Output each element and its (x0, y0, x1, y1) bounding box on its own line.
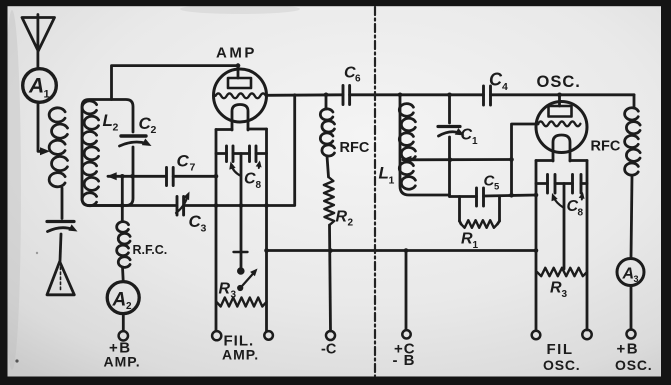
wire C7 to tube base left leg (173, 175, 215, 178)
grid wire to tank (512, 124, 539, 195)
svg-text:3: 3 (562, 289, 568, 300)
antenna coupling coil (49, 108, 65, 122)
svg-text:5: 5 (494, 182, 500, 193)
svg-text:2: 2 (151, 124, 157, 136)
L1 tap arrow (402, 156, 412, 164)
resistor R3 (osc filament) (537, 268, 587, 276)
svg-text:A: A (28, 75, 44, 98)
svg-text:- B: - B (393, 352, 416, 369)
oscillator C8 capacitor row (536, 182, 548, 185)
capacitor C3 (trimmer) (176, 197, 179, 216)
plate (549, 106, 572, 117)
grid (wavy) (216, 93, 266, 98)
plate lead (237, 66, 240, 78)
grid-leak centre line to rheostat (240, 154, 243, 268)
wire capacitor to counterpoise (60, 234, 61, 261)
svg-text:R: R (336, 209, 348, 226)
tube U2 envelope (536, 102, 587, 153)
capacitor C7 (165, 168, 168, 186)
terminal +C -B (405, 251, 408, 330)
RFC choke (osc plate) (633, 95, 636, 108)
svg-text:4: 4 (502, 81, 508, 93)
bias bus wire (267, 249, 537, 252)
terminal +B AMP (119, 331, 128, 340)
C8 wiper arrow (554, 197, 565, 208)
C8 wiper arrow (232, 165, 242, 176)
svg-text:A: A (622, 266, 635, 283)
plate (228, 78, 251, 88)
tube pinch and base (553, 135, 570, 161)
rheostat wiper arrow (238, 285, 243, 290)
inductor L2 (82, 100, 133, 206)
terminal -C (326, 331, 335, 340)
crossing tick (234, 251, 248, 253)
svg-text:C: C (177, 152, 190, 171)
svg-text:6: 6 (355, 74, 361, 85)
svg-text:AMP.: AMP. (222, 347, 259, 363)
svg-text:3: 3 (634, 274, 639, 284)
terminal FIL AMP right (264, 331, 273, 340)
antenna (22, 18, 55, 52)
svg-text:OSC.: OSC. (537, 73, 581, 91)
svg-text:OSC.: OSC. (615, 357, 652, 373)
wire A1 to coupling arrow (38, 103, 42, 152)
capacitor C4 (482, 86, 485, 105)
tube base right leg / FIL OSC line (586, 161, 589, 331)
svg-text:C: C (489, 70, 503, 90)
terminal FIL OSC left (532, 331, 541, 340)
capacitor C1 (variable) (448, 95, 451, 123)
inductor L1 (400, 95, 450, 195)
wire L2 top to plate lead (112, 66, 239, 100)
L2 grid-tap arrow (107, 172, 117, 180)
grid (wavy) (538, 121, 580, 126)
svg-text:R: R (461, 231, 473, 248)
terminal FIL OSC right (582, 330, 591, 339)
terminal FIL AMP left (212, 331, 221, 340)
tap wire to grid (403, 158, 512, 161)
svg-text:8: 8 (578, 208, 584, 219)
capacitor C2 (variable, on L2 right leg) (121, 134, 146, 137)
svg-text:C: C (461, 127, 473, 144)
svg-text:1: 1 (472, 136, 478, 147)
resistor R1 loop (458, 197, 461, 222)
svg-text:3: 3 (201, 223, 207, 235)
svg-text:3: 3 (231, 290, 237, 301)
svg-text:RFC: RFC (591, 139, 621, 155)
neutralizing capacitors C8 row (216, 152, 227, 155)
svg-text:FIL: FIL (547, 341, 574, 358)
tube U1 envelope (214, 69, 267, 122)
wire R2 to -C terminal (330, 225, 331, 331)
svg-text:AMP: AMP (216, 45, 257, 62)
svg-text:+B: +B (617, 341, 640, 358)
terminal +B OSC (627, 330, 636, 339)
capacitor C5 row (450, 195, 477, 198)
resistor R3 (filament rheostat) (217, 298, 267, 307)
svg-text:OSC.: OSC. (543, 357, 580, 373)
RFC choke (amp plate) (325, 95, 328, 109)
wire A3 to +B OSC terminal (630, 286, 633, 330)
junction dots (236, 63, 241, 68)
svg-text:R: R (219, 281, 231, 298)
RFC choke below L2 (121, 176, 124, 221)
centre line to R3 osc (563, 184, 566, 270)
meter A1 (23, 69, 57, 103)
svg-text:R: R (550, 280, 562, 297)
counterpoise ground triangle (47, 262, 74, 295)
svg-text:C: C (244, 171, 256, 188)
svg-text:-C: -C (321, 342, 337, 358)
wire C6 to OSC section (350, 93, 484, 96)
svg-text:1: 1 (389, 175, 395, 187)
resistor R2 (324, 177, 334, 225)
tube base left leg / FIL line (215, 130, 218, 332)
meter A3 (617, 259, 644, 286)
svg-text:A: A (112, 290, 127, 311)
wire C4 to RFC corner (491, 93, 635, 96)
meter A2 (107, 282, 139, 314)
svg-text:L: L (379, 164, 389, 183)
wire C3 to riser (184, 95, 295, 206)
plate lead (558, 95, 561, 106)
svg-text:2: 2 (113, 122, 119, 134)
wire tap to C7 (108, 175, 166, 178)
svg-text:R.F.C.: R.F.C. (133, 243, 168, 257)
wire A2 to +B AMP terminal (122, 314, 125, 331)
svg-text:RFC: RFC (340, 140, 370, 156)
svg-text:1: 1 (44, 89, 50, 101)
tube base left leg / FIL OSC line (535, 161, 538, 331)
tube pinch and base (232, 105, 248, 131)
wire L2 bottom rail with C3 (88, 204, 177, 207)
svg-text:2: 2 (348, 218, 354, 229)
tube base right leg / FIL line (265, 129, 268, 331)
svg-text:1: 1 (473, 240, 479, 251)
capacitor C6 (342, 86, 345, 105)
grid/plate wire to the right (266, 93, 343, 96)
svg-text:2: 2 (126, 301, 132, 312)
section divider (374, 7, 376, 376)
wire coil to series capacitor (61, 188, 64, 219)
svg-text:L: L (103, 111, 113, 130)
antenna series capacitor (variable) (47, 220, 74, 223)
svg-text:7: 7 (190, 162, 196, 174)
svg-text:AMP.: AMP. (104, 354, 141, 370)
svg-text:8: 8 (256, 180, 262, 191)
